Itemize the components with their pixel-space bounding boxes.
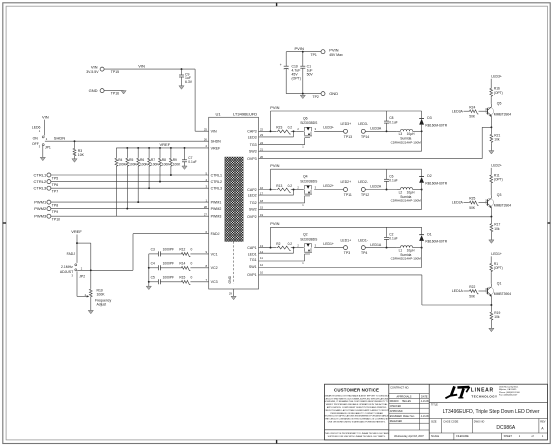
svg-text:+: +	[280, 63, 282, 67]
node PWM2 test point TP9	[34, 206, 58, 214]
svg-text:0.2: 0.2	[288, 242, 293, 246]
svg-text:R22: R22	[469, 285, 475, 289]
svg-text:PVIN: PVIN	[270, 163, 279, 168]
node test point TP13	[341, 122, 353, 139]
svg-text:APPROVED: APPROVED	[390, 410, 403, 413]
svg-text:(OPT): (OPT)	[292, 77, 301, 81]
svg-text:CDRH6D214HP-100M: CDRH6D214HP-100M	[391, 257, 422, 261]
svg-text:FADJ: FADJ	[67, 252, 76, 256]
svg-text:CTRL2: CTRL2	[34, 179, 47, 184]
node VIN stub above JP1	[42, 115, 49, 136]
svg-text:TP6: TP6	[52, 183, 58, 187]
svg-text:Fax: (408)434-0507: Fax: (408)434-0507	[499, 394, 518, 396]
svg-text:6.3V: 6.3V	[185, 80, 193, 84]
svg-text:R15: R15	[179, 276, 185, 280]
svg-text:LED3-: LED3-	[358, 122, 368, 126]
svg-text:L1: L1	[399, 249, 403, 253]
svg-text:RB160M-60TR: RB160M-60TR	[425, 123, 447, 127]
wire PVIN return to TP2	[286, 93, 321, 95]
node CTRL1 test point TP5	[34, 172, 59, 180]
wire PWM1 net	[51, 201, 209, 203]
scale sheet row	[429, 433, 547, 440]
svg-text:PWM2: PWM2	[211, 207, 222, 211]
svg-text:VREF: VREF	[71, 229, 82, 234]
capacitor C1	[300, 52, 313, 94]
svg-text:VREF: VREF	[211, 146, 221, 150]
approvals table	[389, 387, 430, 439]
svg-text:PWM3: PWM3	[211, 215, 222, 219]
pin 29 GND of U1	[229, 289, 234, 296]
wire LED2 pin jog	[259, 190, 294, 196]
svg-text:TECHNOLOGY: TECHNOLOGY	[471, 395, 497, 399]
resistor R5	[126, 147, 138, 210]
node test point TP14	[358, 122, 369, 139]
wire SW2 net	[259, 190, 422, 210]
svg-text:10K: 10K	[78, 153, 85, 157]
svg-text:4-13-06: 4-13-06	[421, 416, 430, 418]
svg-text:LT3496EUFD: LT3496EUFD	[233, 111, 257, 116]
inductor L1	[391, 246, 423, 261]
capacitor C6	[384, 169, 398, 189]
svg-text:LED3: LED3	[248, 135, 257, 139]
svg-text:2.1MHz: 2.1MHz	[61, 265, 73, 269]
svg-text:Wednesday, April 18, 2007: Wednesday, April 18, 2007	[394, 435, 424, 438]
svg-text:DC986A: DC986A	[496, 425, 516, 431]
svg-text:C5: C5	[151, 276, 155, 280]
node PWM1 test point TP8	[34, 199, 58, 207]
resistor R11 (OPT)	[490, 173, 503, 195]
svg-text:D3: D3	[427, 116, 431, 120]
svg-text:LINEAR: LINEAR	[471, 388, 494, 394]
svg-text:100K: 100K	[162, 162, 170, 166]
svg-text:12: 12	[260, 263, 264, 267]
wire CTRL1 net	[51, 174, 209, 176]
svg-text:CAGE CODE: CAGE CODE	[443, 420, 458, 423]
node OVP1 junction	[490, 304, 492, 306]
diode D2	[419, 169, 448, 189]
svg-text:TP2: TP2	[313, 95, 319, 99]
wire CTRL3 net	[51, 187, 209, 189]
svg-text:SUPPLIED FOR USE WITH LINEAR T: SUPPLIED FOR USE WITH LINEAR TECHNOLOGY …	[328, 435, 386, 438]
svg-text:R23: R23	[276, 126, 282, 130]
svg-text:FADJ: FADJ	[211, 232, 220, 236]
svg-text:CUSTOMER NOTICE: CUSTOMER NOTICE	[334, 387, 379, 392]
svg-text:R14: R14	[179, 262, 185, 266]
svg-text:L2: L2	[399, 190, 403, 194]
resistor R12	[160, 248, 208, 257]
title block	[325, 384, 548, 440]
svg-text:0.1uF: 0.1uF	[188, 160, 196, 164]
svg-text:TP9: TP9	[52, 210, 58, 214]
svg-text:LED2+: LED2+	[323, 184, 334, 188]
wire LED3 pin jog	[259, 131, 294, 137]
svg-text:10k: 10k	[494, 315, 500, 319]
svg-text:LINEAR TECHNOLOGY HAS MADE A B: LINEAR TECHNOLOGY HAS MADE A BEST EFFORT…	[324, 394, 390, 397]
svg-text:CTRL3: CTRL3	[34, 186, 47, 191]
svg-text:28: 28	[204, 205, 208, 209]
svg-text:TG3: TG3	[250, 143, 257, 147]
wire CAP3 net	[259, 130, 277, 132]
wire TG2 net	[259, 202, 305, 204]
svg-text:TP13: TP13	[344, 135, 352, 139]
inductor L2	[391, 188, 423, 203]
svg-text:JP1: JP1	[45, 145, 51, 149]
svg-text:HOWEVER, IT REMAINS THE CUSTOM: HOWEVER, IT REMAINS THE CUSTOMER'S RESPO…	[324, 400, 389, 403]
svg-text:PWM3: PWM3	[34, 214, 47, 219]
svg-text:C4: C4	[151, 262, 155, 266]
wire CAP1 net	[259, 247, 277, 249]
svg-text:Q6: Q6	[303, 116, 308, 120]
svg-text:26: 26	[204, 138, 208, 142]
potentiometer R10	[77, 288, 112, 310]
svg-text:MMBT3904: MMBT3904	[494, 112, 511, 116]
ground below R21	[489, 151, 494, 154]
resistor R17	[490, 217, 500, 240]
svg-text:GND: GND	[228, 275, 232, 283]
svg-text:R7: R7	[151, 158, 155, 162]
svg-text:R25: R25	[469, 197, 475, 201]
capacitor C10	[280, 63, 301, 94]
svg-text:L3: L3	[399, 132, 403, 136]
svg-text:24: 24	[260, 141, 264, 145]
svg-text:0: 0	[191, 276, 193, 280]
svg-text:of: of	[532, 435, 534, 438]
svg-text:OVP2: OVP2	[247, 215, 257, 219]
svg-text:100K: 100K	[118, 162, 126, 166]
wire LED2+ net	[314, 184, 343, 190]
svg-text:VERIFY PROPER AND RELIABLE OPE: VERIFY PROPER AND RELIABLE OPERATION IN …	[326, 403, 389, 406]
wire SW1 net	[259, 248, 422, 268]
resistor R15	[160, 276, 208, 285]
svg-text:Milpitas, CA 95035: Milpitas, CA 95035	[499, 388, 517, 391]
svg-text:MMBT3904: MMBT3904	[494, 292, 511, 296]
svg-text:TP15: TP15	[111, 70, 119, 74]
svg-text:Q3: Q3	[497, 193, 502, 197]
svg-text:1000PF: 1000PF	[163, 262, 174, 266]
capacitor C9	[179, 69, 193, 86]
svg-text:D2: D2	[427, 174, 431, 178]
svg-text:TP7: TP7	[52, 190, 58, 194]
node LED3+ stub	[491, 75, 502, 88]
svg-text:LED2+: LED2+	[341, 180, 352, 184]
svg-text:TP11: TP11	[344, 193, 352, 197]
wire LED1A net	[365, 243, 396, 249]
svg-text:CTRL1: CTRL1	[34, 172, 47, 177]
svg-text:REV: REV	[540, 420, 545, 423]
ground below C7	[182, 166, 187, 169]
svg-text:Q4: Q4	[303, 175, 308, 179]
svg-text:CDRH6D214HP-100M: CDRH6D214HP-100M	[391, 199, 422, 203]
svg-text:0.2: 0.2	[288, 184, 293, 188]
IC U1 LT3496EUFD	[209, 111, 259, 289]
svg-text:SCALE: SCALE	[431, 435, 440, 438]
resistor R14	[160, 262, 208, 271]
wire OVP3 net	[259, 127, 492, 158]
svg-text:TP16: TP16	[111, 92, 119, 96]
node test point TP12	[358, 180, 369, 197]
node LED1A stub	[452, 289, 469, 293]
svg-text:19: 19	[260, 213, 264, 217]
svg-text:CTRL3: CTRL3	[211, 187, 222, 191]
svg-text:15: 15	[260, 206, 264, 210]
svg-text:TP12: TP12	[361, 193, 369, 197]
svg-text:17: 17	[260, 191, 264, 195]
ground at TP16	[121, 91, 126, 94]
svg-text:R9: R9	[173, 158, 177, 162]
svg-text:10k: 10k	[494, 227, 500, 231]
svg-text:27: 27	[204, 213, 208, 217]
svg-text:0.1uF: 0.1uF	[389, 237, 397, 241]
svg-text:TG1: TG1	[250, 258, 257, 262]
svg-text:R5: R5	[129, 158, 133, 162]
svg-text:CTRL2: CTRL2	[211, 180, 222, 184]
svg-text:50V: 50V	[307, 73, 314, 77]
resistor R1 (OPT)	[490, 262, 503, 284]
svg-text:Q5: Q5	[497, 102, 502, 106]
svg-text:100K: 100K	[97, 293, 106, 297]
svg-text:0.2: 0.2	[288, 126, 293, 130]
svg-text:SHEET: SHEET	[504, 435, 513, 438]
svg-text:GND: GND	[329, 91, 338, 96]
svg-text:ADJUST: ADJUST	[60, 270, 74, 274]
ground below R19	[489, 328, 494, 331]
node test point TP11	[341, 180, 352, 197]
svg-text:13: 13	[260, 244, 264, 248]
pin labels U1 left side	[204, 128, 222, 285]
svg-text:Q1: Q1	[497, 281, 502, 285]
svg-text:0: 0	[191, 248, 193, 252]
thermal pad crosshatch	[225, 157, 243, 242]
wire SW3 net	[259, 131, 422, 151]
svg-text:RB160M-60TR: RB160M-60TR	[425, 240, 447, 244]
wire PVIN rail channel 3	[270, 105, 421, 132]
svg-text:18: 18	[260, 199, 264, 203]
svg-text:GND: GND	[89, 88, 98, 93]
transistor Q3 MMBT3904	[486, 193, 511, 217]
resistor R13 sense	[276, 184, 296, 192]
svg-text:LED6: LED6	[32, 125, 41, 129]
svg-text:29: 29	[229, 292, 233, 296]
svg-text:Si2303BDS: Si2303BDS	[300, 179, 318, 183]
svg-text:VC1: VC1	[211, 252, 218, 256]
resistor R19	[490, 305, 500, 328]
svg-text:LED3+: LED3+	[491, 75, 502, 79]
svg-text:PVIN: PVIN	[329, 47, 338, 52]
ground below U1	[231, 296, 236, 299]
svg-text:0: 0	[191, 262, 193, 266]
svg-text:Si2303BDS: Si2303BDS	[300, 237, 318, 241]
svg-text:TP10: TP10	[52, 218, 60, 222]
svg-text:(OPT): (OPT)	[494, 178, 503, 182]
svg-text:OVP1: OVP1	[247, 273, 257, 277]
wire CAP2 net	[259, 189, 277, 191]
wire LED2A net	[365, 185, 396, 191]
svg-text:APPROVALS: APPROVALS	[397, 395, 412, 398]
svg-text:R13: R13	[276, 184, 282, 188]
wire PWM3 net	[51, 215, 209, 217]
svg-text:FILENAME: FILENAME	[456, 435, 469, 438]
wire PVIN rail channel 2	[270, 163, 421, 190]
jumper JP1	[32, 125, 51, 157]
pin labels U1 right side	[247, 128, 263, 277]
svg-text:PWM1: PWM1	[211, 201, 222, 205]
ground below R10	[88, 310, 93, 313]
transistor Q2 Si2303BDS	[296, 233, 318, 265]
svg-text:MMBT3904: MMBT3904	[494, 204, 511, 208]
node CTRL3 test point TP7	[34, 186, 59, 194]
svg-text:LED3+: LED3+	[341, 122, 352, 126]
resistor R9	[170, 147, 182, 176]
svg-text:R2: R2	[276, 242, 280, 246]
node OVP3 junction	[490, 126, 492, 128]
svg-text:LED1+: LED1+	[491, 252, 502, 256]
resistor R16 (OPT)	[490, 87, 503, 104]
resistor R2 sense	[276, 242, 296, 250]
svg-text:LED2+: LED2+	[491, 164, 502, 168]
node test point TP3	[341, 238, 352, 255]
svg-text:Adjust: Adjust	[97, 303, 107, 307]
svg-text:CONTRACT NO.: CONTRACT NO.	[390, 387, 409, 390]
svg-text:LED1: LED1	[248, 252, 257, 256]
svg-text:LED1-: LED1-	[358, 238, 368, 242]
capacitor C4	[149, 262, 174, 271]
diode D3	[419, 111, 448, 131]
svg-text:APPLICATION. COMPONENT SUBSTIT: APPLICATION. COMPONENT SUBSTITUTION AND …	[327, 406, 387, 409]
resistor R23 sense	[276, 126, 296, 134]
node LED2A stub	[452, 201, 469, 205]
svg-text:4-13-06: 4-13-06	[421, 401, 430, 403]
drawing number row	[429, 419, 547, 434]
svg-text:THIS CIRCUIT IS PROPRIETARY TO: THIS CIRCUIT IS PROPRIETARY TO LINEAR TE…	[325, 432, 389, 435]
svg-text:Q2: Q2	[303, 233, 308, 237]
svg-text:LED1+: LED1+	[341, 238, 352, 242]
svg-text:SW3: SW3	[249, 150, 257, 154]
wire LED3A net	[365, 127, 396, 133]
svg-text:10µH: 10µH	[407, 249, 415, 253]
svg-text:50K: 50K	[469, 206, 476, 210]
node PWM3 test point TP10	[34, 214, 60, 222]
svg-text:THE CIRCUIT CONTAINED IN THIS: THE CIRCUIT CONTAINED IN THIS SCHEMATIC …	[325, 418, 390, 421]
svg-text:50K: 50K	[469, 115, 476, 119]
capacitor C2	[384, 227, 398, 247]
ground below C9	[179, 86, 184, 89]
svg-text:CTRL1: CTRL1	[211, 173, 222, 177]
svg-text:R6: R6	[140, 158, 144, 162]
transistor Q6 Si2303BDS	[296, 116, 318, 148]
svg-text:3V-5.5V: 3V-5.5V	[86, 70, 99, 74]
resistor R3	[73, 141, 85, 159]
svg-text:0.1uF: 0.1uF	[389, 120, 397, 124]
svg-text:TP8: TP8	[52, 204, 58, 208]
transistor Q1 MMBT3904	[486, 281, 511, 305]
svg-text:R4: R4	[118, 158, 122, 162]
wire LED1 pin jog	[259, 248, 294, 254]
svg-text:ONE OR MORE UNITED STATES AND: ONE OR MORE UNITED STATES AND FOREIGN PA…	[328, 421, 386, 424]
svg-text:VIN: VIN	[211, 130, 217, 134]
resistor R6	[137, 147, 149, 203]
svg-text:10µH: 10µH	[407, 190, 415, 194]
svg-text:VREF: VREF	[160, 142, 171, 147]
node VREF stub above JP2	[71, 229, 82, 263]
logo Linear Technology	[445, 386, 520, 399]
svg-text:LED2-: LED2-	[358, 180, 368, 184]
node OVP2 junction	[490, 216, 492, 218]
jumper JP2	[60, 252, 85, 297]
ground below R3	[72, 159, 77, 162]
svg-text:TP14: TP14	[361, 135, 369, 139]
svg-text:CDRH6D214HP-100M: CDRH6D214HP-100M	[391, 140, 422, 144]
wire SHDN net	[45, 136, 209, 142]
svg-text:TECHNOLOGY APPLICATIONS ENGINE: TECHNOLOGY APPLICATIONS ENGINEERING FOR …	[324, 415, 389, 418]
diode D1	[419, 227, 448, 247]
wire FADJ net to chip	[77, 234, 209, 272]
node CTRL2 test point TP6	[34, 179, 59, 187]
wire OVP1 net	[259, 275, 492, 305]
svg-text:50K: 50K	[469, 294, 476, 298]
customer notice text	[324, 387, 390, 438]
node LED3A stub	[452, 109, 469, 113]
svg-text:LED1A: LED1A	[370, 243, 382, 247]
node LED2+ stub	[491, 164, 502, 175]
svg-text:ON: ON	[33, 136, 39, 140]
svg-text:LED3+: LED3+	[323, 126, 334, 130]
wire PWM2 net	[51, 208, 209, 210]
svg-text:PWM1: PWM1	[34, 199, 47, 204]
capacitor C7	[182, 147, 197, 166]
svg-text:C3: C3	[151, 248, 155, 252]
svg-text:11: 11	[260, 256, 263, 260]
svg-text:R12: R12	[179, 248, 185, 252]
resistor R25	[469, 197, 488, 210]
svg-text:1630 McCarthy Blvd.: 1630 McCarthy Blvd.	[499, 386, 519, 389]
svg-text:100K: 100K	[151, 162, 159, 166]
ground below JP1	[40, 157, 45, 160]
resistor R24	[469, 105, 488, 118]
svg-text:PERFORMANCE OR RELIABILITY. CO: PERFORMANCE OR RELIABILITY. CONTACT LINE…	[330, 412, 383, 415]
svg-text:CIRCUIT THAT MEETS CUSTOMER-SU: CIRCUIT THAT MEETS CUSTOMER-SUPPLIED SPE…	[324, 397, 389, 400]
wire PVIN rail	[286, 46, 321, 66]
wire PVIN rail channel 1	[270, 221, 421, 248]
svg-text:Walter Sun: Walter Sun	[403, 415, 415, 418]
svg-text:RB160M-60TR: RB160M-60TR	[425, 182, 447, 186]
wire VIN rail	[104, 63, 209, 131]
svg-text:VIN: VIN	[42, 115, 49, 120]
ground at PVIN return	[300, 95, 305, 98]
node GND input terminal TP16	[89, 88, 124, 96]
ground below VC rail	[146, 286, 151, 289]
transistor Q4 Si2303BDS	[296, 175, 318, 207]
svg-text:1000PF: 1000PF	[163, 248, 174, 252]
wire TG1 net	[259, 260, 305, 262]
node PVIN input terminal TP1	[311, 47, 344, 57]
svg-text:1000PF: 1000PF	[163, 276, 174, 280]
svg-text:PVIN: PVIN	[270, 105, 279, 110]
svg-text:PVIN: PVIN	[295, 46, 304, 51]
svg-text:Si2303BDS: Si2303BDS	[300, 121, 318, 125]
svg-text:100K: 100K	[140, 162, 148, 166]
svg-text:SW2: SW2	[249, 208, 257, 212]
svg-text:DRAWN: DRAWN	[390, 400, 399, 403]
svg-text:TITLE: TITLE	[431, 403, 438, 406]
wire VREF rail	[116, 142, 208, 148]
wire TG3 net	[259, 144, 305, 146]
resistor R8	[159, 147, 171, 183]
svg-text:TP3: TP3	[344, 251, 350, 255]
wire CTRL2 net	[51, 181, 209, 183]
svg-text:SHDN: SHDN	[54, 136, 65, 141]
capacitor C5	[149, 276, 174, 285]
title text	[429, 402, 547, 415]
